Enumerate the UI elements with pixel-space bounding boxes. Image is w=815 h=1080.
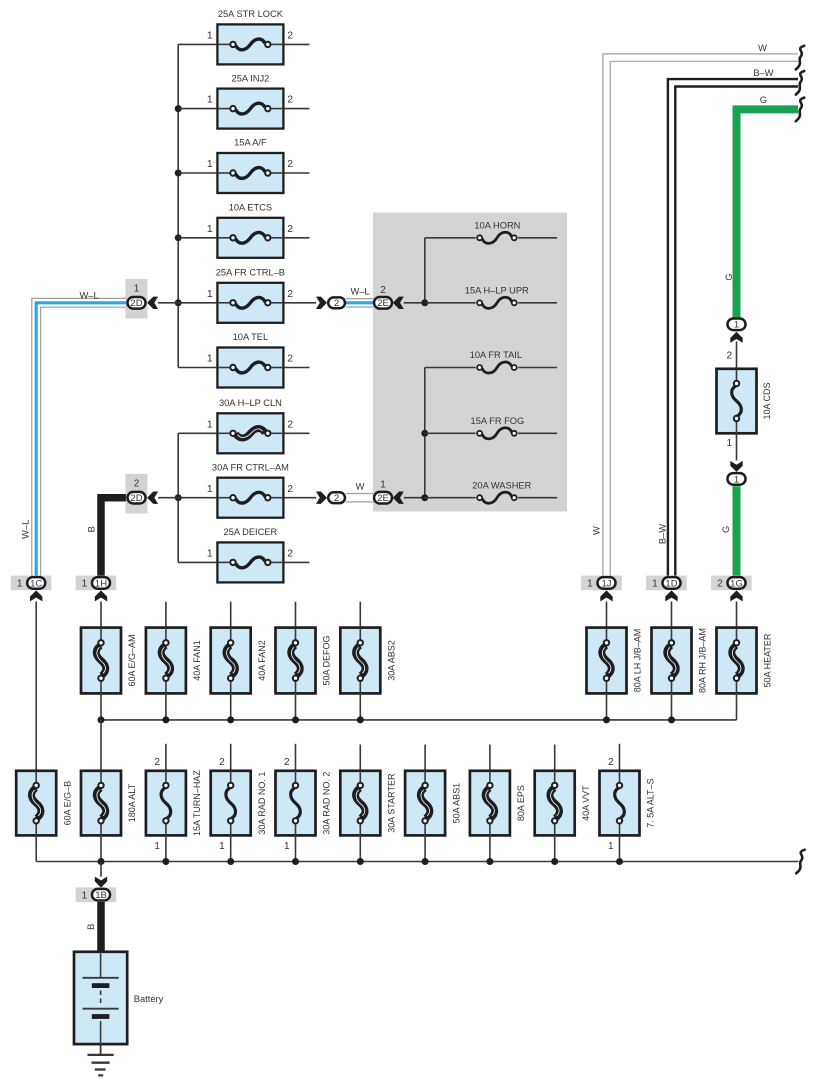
- svg-text:1: 1: [207, 354, 213, 365]
- svg-text:W–L: W–L: [20, 520, 30, 539]
- svg-text:1: 1: [587, 579, 593, 590]
- svg-text:G: G: [760, 95, 767, 105]
- svg-text:W–L: W–L: [80, 290, 99, 300]
- svg-text:1: 1: [734, 474, 739, 485]
- svg-text:40A FAN2: 40A FAN2: [257, 640, 267, 681]
- svg-text:B–W: B–W: [658, 524, 668, 544]
- svg-text:10A ETCS: 10A ETCS: [229, 203, 272, 213]
- svg-text:2: 2: [334, 493, 339, 504]
- svg-text:10A HORN: 10A HORN: [474, 220, 520, 230]
- svg-text:1: 1: [284, 841, 290, 852]
- svg-text:1: 1: [17, 579, 23, 590]
- svg-text:1: 1: [154, 841, 160, 852]
- svg-text:15A H–LP UPR: 15A H–LP UPR: [465, 285, 529, 295]
- svg-text:1: 1: [207, 31, 213, 42]
- svg-text:2: 2: [287, 224, 293, 235]
- svg-text:1: 1: [734, 320, 739, 331]
- svg-text:2D: 2D: [130, 298, 142, 309]
- svg-text:1: 1: [207, 159, 213, 170]
- svg-text:2: 2: [287, 159, 293, 170]
- svg-text:50A DEFOG: 50A DEFOG: [322, 635, 332, 685]
- svg-text:1: 1: [134, 284, 140, 295]
- svg-text:1B: 1B: [95, 890, 107, 901]
- svg-text:50A HEATER: 50A HEATER: [763, 633, 773, 687]
- svg-text:B–W: B–W: [753, 68, 773, 78]
- svg-text:10A CDS: 10A CDS: [762, 382, 772, 419]
- svg-text:G: G: [724, 273, 734, 280]
- svg-text:1: 1: [380, 480, 386, 491]
- svg-text:2: 2: [154, 757, 160, 768]
- svg-text:2: 2: [717, 579, 723, 590]
- svg-text:2: 2: [726, 351, 732, 362]
- svg-text:2: 2: [287, 549, 293, 560]
- svg-text:30A RAD NO. 2: 30A RAD NO. 2: [322, 772, 332, 835]
- svg-text:15A A/F: 15A A/F: [234, 138, 267, 148]
- svg-text:30A RAD NO. 1: 30A RAD NO. 1: [257, 772, 267, 835]
- svg-text:Battery: Battery: [134, 994, 164, 1004]
- svg-text:2: 2: [287, 95, 293, 106]
- svg-text:1: 1: [207, 289, 213, 300]
- svg-text:80A LH J/B–AM: 80A LH J/B–AM: [633, 629, 643, 693]
- svg-text:30A ABS2: 30A ABS2: [387, 640, 397, 681]
- svg-text:2: 2: [287, 419, 293, 430]
- svg-text:25A FR CTRL–B: 25A FR CTRL–B: [216, 268, 285, 278]
- svg-text:1: 1: [207, 549, 213, 560]
- svg-text:2: 2: [287, 31, 293, 42]
- svg-text:15A FR FOG: 15A FR FOG: [471, 416, 525, 426]
- svg-text:W–L: W–L: [350, 287, 369, 297]
- svg-text:1: 1: [207, 484, 213, 495]
- svg-text:1: 1: [207, 224, 213, 235]
- svg-text:1: 1: [82, 579, 88, 590]
- svg-text:25A DEICER: 25A DEICER: [224, 527, 278, 537]
- svg-text:1J: 1J: [601, 578, 611, 589]
- svg-text:1H: 1H: [95, 578, 107, 589]
- svg-text:1C: 1C: [30, 578, 42, 589]
- svg-text:60A E/G–B: 60A E/G–B: [62, 781, 72, 826]
- svg-text:2D: 2D: [130, 493, 142, 504]
- svg-text:1: 1: [652, 579, 658, 590]
- svg-text:80A EPS: 80A EPS: [516, 785, 526, 821]
- svg-text:1: 1: [219, 841, 225, 852]
- svg-text:2E: 2E: [377, 298, 389, 309]
- svg-text:B: B: [87, 526, 97, 532]
- svg-text:2: 2: [219, 757, 225, 768]
- svg-text:1: 1: [207, 419, 213, 430]
- svg-text:2: 2: [134, 479, 140, 490]
- svg-text:25A INJ2: 25A INJ2: [232, 73, 270, 83]
- svg-text:180A ALT: 180A ALT: [127, 783, 137, 822]
- svg-text:40A FAN1: 40A FAN1: [192, 640, 202, 681]
- svg-text:2: 2: [380, 285, 386, 296]
- svg-text:10A TEL: 10A TEL: [233, 332, 269, 342]
- svg-text:60A E/G–AM: 60A E/G–AM: [127, 634, 137, 686]
- svg-text:2: 2: [608, 757, 614, 768]
- svg-text:40A VVT: 40A VVT: [581, 785, 591, 821]
- svg-text:10A FR TAIL: 10A FR TAIL: [470, 350, 522, 360]
- svg-text:1: 1: [82, 891, 88, 902]
- svg-text:2: 2: [284, 757, 290, 768]
- svg-text:25A STR LOCK: 25A STR LOCK: [218, 9, 284, 19]
- svg-text:1: 1: [608, 841, 614, 852]
- svg-text:2: 2: [287, 289, 293, 300]
- svg-text:2: 2: [287, 484, 293, 495]
- svg-text:W: W: [356, 482, 365, 492]
- svg-text:B: B: [86, 924, 96, 930]
- svg-text:1G: 1G: [730, 578, 743, 589]
- svg-text:1: 1: [726, 438, 732, 449]
- svg-text:80A RH J/B–AM: 80A RH J/B–AM: [698, 628, 708, 693]
- svg-text:20A WASHER: 20A WASHER: [472, 480, 531, 490]
- svg-text:30A H–LP CLN: 30A H–LP CLN: [219, 398, 282, 408]
- svg-text:W: W: [592, 526, 602, 535]
- svg-text:30A FR CTRL–AM: 30A FR CTRL–AM: [212, 462, 289, 472]
- svg-text:15A TURN–HAZ: 15A TURN–HAZ: [192, 770, 202, 836]
- svg-text:1D: 1D: [665, 578, 677, 589]
- svg-text:G: G: [721, 526, 731, 533]
- svg-text:W: W: [758, 43, 767, 53]
- svg-text:50A ABS1: 50A ABS1: [451, 783, 461, 824]
- svg-text:2: 2: [287, 354, 293, 365]
- svg-text:30A STARTER: 30A STARTER: [387, 773, 397, 833]
- svg-text:1: 1: [207, 95, 213, 106]
- svg-text:7. 5A ALT–S: 7. 5A ALT–S: [646, 778, 656, 827]
- svg-text:2: 2: [334, 298, 339, 309]
- svg-text:2E: 2E: [377, 493, 389, 504]
